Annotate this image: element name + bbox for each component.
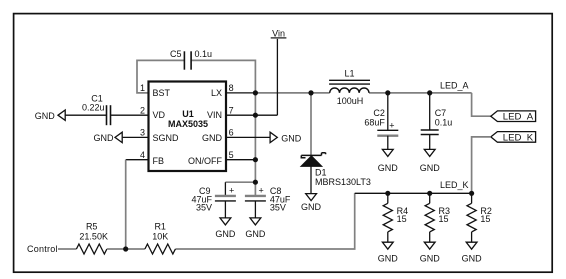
svg-text:ON/OFF: ON/OFF (188, 156, 222, 166)
svg-text:LED_A: LED_A (503, 112, 534, 123)
wire: control lead-in (58, 248, 76, 250)
svg-text:C5: C5 (170, 49, 182, 59)
ground symbol (C2) (382, 149, 393, 156)
capacitor C1 plates (107, 105, 111, 125)
svg-text:R5: R5 (86, 222, 98, 232)
svg-text:GND: GND (281, 134, 302, 144)
svg-text:GND: GND (215, 229, 236, 239)
svg-text:GND: GND (35, 111, 56, 121)
wire: D1 anode to ground (310, 166, 312, 193)
svg-text:1: 1 (140, 83, 145, 93)
diode D1 schottky cathode bar (301, 153, 325, 158)
svg-text:35V: 35V (270, 202, 286, 212)
svg-text:LX: LX (211, 88, 222, 98)
inductor L1 core bars (329, 79, 370, 81)
ground symbol (C7) (424, 149, 435, 156)
op-amp U1 MAX5035 IC body (149, 82, 227, 172)
svg-text:GND: GND (301, 202, 322, 212)
svg-text:MBRS130LT3: MBRS130LT3 (315, 177, 371, 187)
svg-text:21.50K: 21.50K (79, 232, 108, 242)
ground symbol (pin6) (270, 132, 277, 142)
wire: FB vertical down to control row (125, 160, 127, 249)
resistor R1 (145, 244, 175, 254)
resistor R4 (387, 193, 389, 203)
wire: pin2 VD stub through C1 (66, 114, 107, 116)
ground symbol (D1) (306, 194, 317, 201)
junction dots on LED_K row (385, 191, 390, 196)
ground symbol (left of C1) (58, 110, 65, 120)
wire: inductor output row to LED_A corner (369, 92, 472, 94)
svg-text:GND: GND (378, 253, 399, 263)
svg-text:FB: FB (153, 156, 165, 166)
svg-text:+: + (229, 186, 234, 196)
svg-text:BST: BST (153, 88, 171, 98)
svg-text:5: 5 (229, 150, 234, 160)
wire: pin4 FB stub (126, 159, 149, 161)
wire: C5 bootstrap loop (pin1 BST up, across top, down to LX rail) (137, 60, 184, 93)
capacitor C8 (polarized) (245, 196, 266, 218)
capacitor C2 (polarized) drop (387, 93, 389, 130)
wire: C5 right side to LX column (191, 60, 255, 93)
svg-text:8: 8 (229, 83, 234, 93)
svg-text:GND: GND (94, 133, 115, 143)
inductor L1 winding (330, 88, 369, 93)
svg-text:+: + (259, 186, 264, 196)
svg-text:GND: GND (420, 163, 441, 173)
svg-text:7: 7 (229, 105, 234, 115)
capacitor C9 (polarized) (215, 196, 236, 218)
ground symbol (R4) (382, 242, 393, 249)
svg-text:3: 3 (140, 128, 145, 138)
svg-text:6: 6 (229, 128, 234, 138)
svg-text:GND: GND (245, 229, 266, 239)
wire: branch to C9 (225, 181, 255, 183)
wire: LX net row to inductor (255, 92, 329, 94)
svg-text:0.22u: 0.22u (82, 103, 105, 113)
ground symbol (C8) (250, 218, 261, 225)
wire: LED_A corner down and to tag (472, 93, 491, 116)
ground symbol (R3) (424, 242, 435, 249)
wire: Vin vertical (276, 39, 278, 115)
svg-text:100uH: 100uH (337, 96, 364, 106)
svg-text:Control: Control (27, 244, 58, 254)
wire: control row from R1 to LED_K column (175, 193, 354, 249)
svg-text:GND: GND (378, 163, 399, 173)
capacitor C7 drop (429, 93, 431, 130)
svg-text:4: 4 (140, 150, 145, 160)
svg-text:GND: GND (202, 133, 223, 143)
svg-text:10K: 10K (152, 232, 168, 242)
svg-text:0.1u: 0.1u (195, 49, 213, 59)
Vin underline (271, 37, 287, 39)
capacitor C5 plates (184, 51, 191, 69)
svg-text:LED_K: LED_K (503, 132, 534, 143)
svg-text:15: 15 (397, 214, 407, 224)
wire: pin6 GND stub (226, 136, 270, 138)
svg-text:15: 15 (480, 214, 490, 224)
ground symbol (R2) (466, 242, 477, 249)
wire: LED_K tag to column (472, 137, 491, 193)
wire: D1 drop from LX row (310, 93, 312, 155)
junction dots on VIN rail (253, 90, 258, 95)
svg-text:MAX5035: MAX5035 (168, 119, 208, 129)
svg-text:+: + (389, 121, 394, 131)
wire: VIN rail vertical (LX col down to C8) (254, 93, 256, 195)
resistor R5 (76, 244, 106, 254)
svg-text:VIN: VIN (207, 110, 222, 120)
wire: pin7 VIN stub to Vin drop (226, 114, 277, 116)
net tag LED_K flag (491, 132, 536, 143)
svg-text:L1: L1 (344, 68, 354, 78)
resistor R2 (471, 193, 473, 203)
svg-text:GND: GND (462, 253, 483, 263)
junction dots on LX / LED_A row (308, 90, 313, 95)
svg-text:SGND: SGND (153, 133, 180, 143)
ground symbol (C9) (220, 218, 231, 225)
wire: R5 to junction (107, 248, 145, 250)
svg-text:0.1u: 0.1u (435, 117, 453, 127)
svg-text:35V: 35V (196, 202, 212, 212)
svg-text:U1: U1 (182, 109, 194, 119)
wire: pin5 ON/OFF stub (226, 159, 255, 161)
diode D1 triangle (301, 156, 322, 167)
svg-text:LED_K: LED_K (440, 180, 469, 190)
wire: pin8 LX stub (226, 92, 255, 94)
svg-text:VD: VD (153, 110, 166, 120)
junction dot (FB / control) (123, 246, 128, 251)
svg-text:15: 15 (439, 214, 449, 224)
net tag LED_A flag (491, 111, 536, 122)
svg-text:LED_A: LED_A (440, 81, 469, 91)
ground symbol (pin3 SGND) (115, 132, 122, 142)
wire: pin3 SGND stub (123, 136, 149, 138)
svg-text:R1: R1 (154, 222, 166, 232)
wire: LED_K row (355, 192, 472, 194)
svg-text:68uF: 68uF (364, 117, 385, 127)
svg-text:Vin: Vin (272, 28, 285, 38)
svg-text:GND: GND (420, 253, 441, 263)
svg-text:2: 2 (140, 105, 145, 115)
resistor R3 (429, 193, 431, 203)
